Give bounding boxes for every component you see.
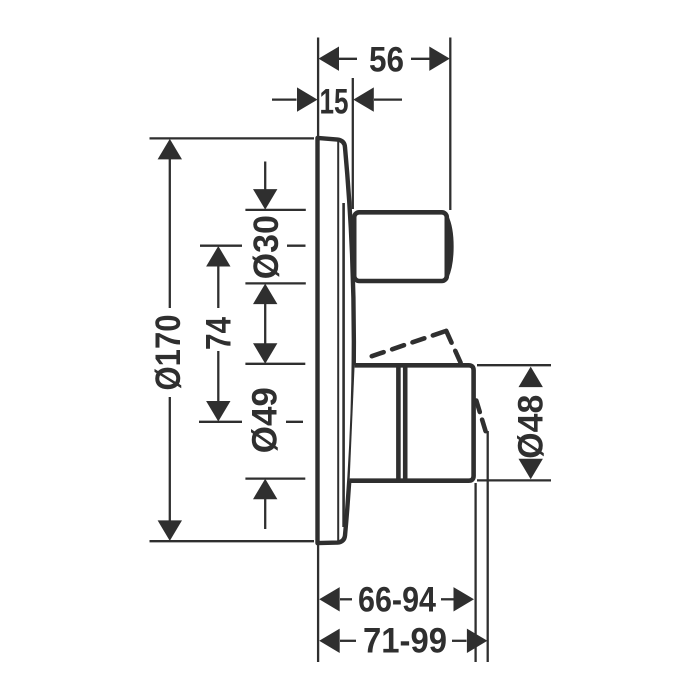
dimension 15 right tail <box>374 98 402 100</box>
rotated handle dashed front edge lower <box>476 401 487 438</box>
dimension Ø48 top tick <box>477 364 551 366</box>
arrowhead &#216;48 top (points up) <box>519 367 543 388</box>
dimension Ø49 bottom shaft <box>264 498 266 529</box>
arrowhead 56 left <box>319 47 340 71</box>
dimension 15 left tail <box>272 98 297 100</box>
extension line 56 right (knob front) <box>449 38 451 211</box>
arrowhead 74 bottom <box>206 401 230 422</box>
dimension Ø30 top shaft <box>264 162 266 192</box>
arrowhead 66-94 left <box>319 587 340 611</box>
svg-text:15: 15 <box>320 83 349 122</box>
dimension 66-94 line segments <box>340 598 352 600</box>
svg-text:Ø170: Ø170 <box>149 315 188 391</box>
knob end cap (solid crescent) <box>447 217 452 278</box>
svg-text:66-94: 66-94 <box>358 581 436 620</box>
escutcheon plate outline <box>318 138 354 543</box>
rotated handle dashed front edge upper <box>446 331 463 368</box>
arrowhead 15 left (points right at wall) <box>297 87 318 111</box>
arrowhead &#216;49 top (points down) <box>253 343 277 364</box>
arrowhead &#216;170 top <box>158 139 182 160</box>
svg-text:56: 56 <box>369 41 404 80</box>
dimension Ø170 top tick <box>150 137 315 139</box>
extension line 71-99 (rotated handle front) <box>487 431 489 662</box>
plate inner circle line 2 <box>342 203 345 527</box>
plate inner circle line 1 <box>337 142 339 541</box>
extension line 15 right (plate face) <box>352 78 354 209</box>
dimension Ø49 top tick <box>245 363 305 365</box>
arrowhead 74 top <box>206 246 230 267</box>
arrowhead &#216;48 bottom (points down) <box>519 459 543 480</box>
svg-text:Ø30: Ø30 <box>247 215 286 279</box>
dimension 71-99 line segments <box>340 640 356 642</box>
arrowhead &#216;30 top (points down) <box>253 189 277 210</box>
dimension Ø30 top tick <box>245 209 305 211</box>
arrowhead 56 right <box>429 47 450 71</box>
dimension 56 line segments <box>339 58 357 60</box>
svg-text:71-99: 71-99 <box>363 622 447 661</box>
svg-text:74: 74 <box>200 317 239 350</box>
arrowhead 15 right (points left at plate face) <box>353 87 374 111</box>
arrowhead &#216;30 bottom (points up) <box>253 284 277 305</box>
dimension Ø49 bottom tick <box>245 477 305 479</box>
handle body <box>350 365 474 480</box>
dimension 74 bottom ticks <box>199 421 242 423</box>
knob body <box>354 212 447 281</box>
extension line 66-94 (handle front) <box>474 483 476 662</box>
dimension Ø170 bottom tick <box>150 540 315 542</box>
svg-text:Ø48: Ø48 <box>512 395 551 459</box>
handle joint line 2 <box>403 365 408 480</box>
arrowhead 71-99 left <box>319 629 340 653</box>
dimension 74 shaft lower <box>217 351 219 403</box>
arrowhead &#216;170 bottom <box>158 520 182 541</box>
handle joint line 1 <box>396 365 401 480</box>
wall extension line <box>317 38 319 663</box>
dimension 74 shaft upper <box>217 264 219 308</box>
arrowhead &#216;49 bottom (points up) <box>253 479 277 500</box>
dimension Ø170 shaft lower <box>169 397 171 522</box>
dimension Ø30 bottom tick <box>245 282 305 284</box>
arrowhead 66-94 right <box>454 587 475 611</box>
arrowhead 71-99 right <box>467 629 488 653</box>
dimension Ø170 shaft upper <box>169 158 171 308</box>
shared shaft Ø30 bottom / Ø49 top <box>264 303 266 345</box>
dimension 74 top ticks <box>200 245 242 247</box>
svg-text:Ø49: Ø49 <box>246 387 285 453</box>
dimension Ø48 bottom tick <box>477 479 551 481</box>
rotated handle dashed top edge <box>372 331 445 356</box>
